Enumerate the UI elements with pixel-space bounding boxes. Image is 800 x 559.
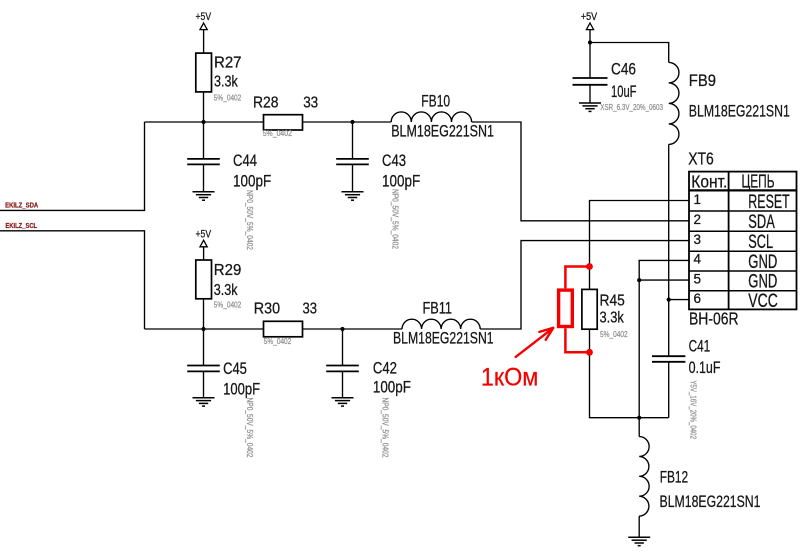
ferrite bead FB11	[393, 300, 494, 348]
svg-text:1: 1	[694, 192, 702, 207]
svg-text:0.1uF: 0.1uF	[689, 359, 721, 377]
svg-text:NP0_50V_5%_0402: NP0_50V_5%_0402	[245, 190, 254, 250]
wire bottom rail left	[145, 328, 264, 330]
ground (FB12)	[628, 537, 650, 545]
svg-text:XSR_6.3V_20%_0603: XSR_6.3V_20%_0603	[600, 103, 663, 112]
wire FB10 to SDA pin 2	[472, 122, 689, 221]
svg-text:100pF: 100pF	[223, 380, 260, 398]
label BH-06R	[689, 309, 739, 329]
svg-text:C46: C46	[611, 60, 636, 78]
node red bottom junction	[586, 349, 593, 356]
wire top rail left	[145, 121, 264, 123]
node GND rail junction	[637, 416, 641, 420]
ground (C42)	[332, 398, 354, 406]
ground (C44)	[193, 192, 215, 200]
svg-text:FB11: FB11	[423, 300, 453, 318]
svg-text:ЦЕПЬ: ЦЕПЬ	[742, 172, 775, 192]
ground (C45)	[193, 398, 215, 406]
pin 2 number	[694, 212, 702, 227]
power +5V (above R27)	[196, 11, 212, 53]
ground (C46)	[579, 103, 601, 111]
svg-text:Конт.: Конт.	[691, 172, 727, 192]
resistor R27	[196, 53, 242, 92]
svg-text:VCC: VCC	[748, 291, 778, 312]
resistor R28	[253, 94, 318, 130]
svg-text:5%_0402: 5%_0402	[600, 330, 628, 339]
svg-text:10uF: 10uF	[611, 83, 637, 101]
node pin5 GND junction	[637, 278, 641, 282]
svg-text:100pF: 100pF	[373, 379, 411, 397]
node +5V/C46/FB9 junction	[588, 40, 592, 44]
svg-text:C41: C41	[689, 338, 711, 356]
connector XT6 table	[689, 172, 797, 310]
value label R29 tolerance	[214, 301, 242, 310]
node red top junction	[586, 263, 593, 270]
resistor R29	[196, 260, 242, 299]
resistor R45	[582, 289, 625, 329]
red annotation text 1кОм	[481, 364, 539, 392]
node pin6 VCC junction	[667, 298, 671, 302]
value label C46 type	[600, 103, 663, 112]
pin 2 net name SDA	[748, 212, 775, 233]
svg-text:NP0_50V_5%_0402: NP0_50V_5%_0402	[245, 398, 254, 458]
svg-text:EKILZ_SCL: EKILZ_SCL	[5, 223, 37, 230]
wire +5V rail to FB9	[590, 43, 669, 63]
capacitor C44	[187, 122, 271, 192]
value label C44 type	[245, 190, 254, 250]
svg-text:5%_0402: 5%_0402	[214, 301, 242, 310]
wire R45 bottom to GND rail	[590, 329, 669, 418]
value label C42 type	[381, 398, 390, 458]
ferrite bead FB10	[391, 92, 494, 140]
wire EKILZ_SDA entry	[0, 122, 145, 210]
wire EKILZ_SCL entry	[0, 231, 145, 329]
node C43 junction	[350, 120, 354, 124]
svg-text:BH-06R: BH-06R	[689, 309, 739, 329]
svg-text:4: 4	[694, 252, 702, 267]
wire pin 6 VCC	[669, 299, 689, 301]
wire pin 1 RESET to R45	[590, 201, 690, 290]
pin 1 number	[694, 192, 702, 207]
svg-text:GND: GND	[748, 272, 777, 293]
value label R28 tolerance	[263, 129, 293, 138]
svg-text:R45: R45	[600, 293, 625, 310]
power +5V (above R29)	[196, 228, 212, 260]
svg-text:33: 33	[303, 301, 318, 318]
svg-text:3.3k: 3.3k	[214, 282, 238, 299]
svg-text:Y5V_16V_20%_0402: Y5V_16V_20%_0402	[689, 380, 698, 439]
svg-text:EKILZ_SDA: EKILZ_SDA	[5, 202, 38, 209]
svg-text:C42: C42	[373, 359, 397, 377]
pin 1 net name RESET	[748, 192, 790, 213]
svg-text:2: 2	[694, 212, 702, 227]
svg-text:5: 5	[694, 271, 702, 286]
svg-text:C43: C43	[382, 152, 406, 170]
value label C41 type	[689, 380, 698, 439]
value label C43 type	[391, 189, 400, 249]
svg-text:R30: R30	[254, 301, 281, 318]
svg-text:RESET: RESET	[748, 192, 790, 213]
net label EKILZ_SCL	[5, 223, 37, 230]
value label R45 tolerance	[600, 330, 628, 339]
pin 4 number	[694, 252, 702, 267]
svg-text:BLM18EG221SN1: BLM18EG221SN1	[393, 330, 494, 348]
svg-text:FB10: FB10	[421, 92, 450, 110]
svg-text:BLM18EG221SN1: BLM18EG221SN1	[660, 493, 761, 511]
pin 4 net name GND	[748, 252, 777, 273]
svg-text:100pF: 100pF	[233, 172, 271, 190]
svg-text:SDA: SDA	[748, 212, 775, 233]
svg-text:3.3k: 3.3k	[600, 310, 624, 327]
red highlighted resistor (1kOm replacement)	[559, 267, 590, 353]
table header Конт.	[691, 172, 727, 192]
capacitor C43	[336, 122, 420, 192]
svg-text:R27: R27	[214, 54, 242, 71]
resistor R30	[254, 301, 317, 337]
value label C45 type	[245, 398, 254, 458]
svg-text:C45: C45	[223, 360, 247, 378]
node C42 junction	[340, 327, 344, 331]
power +5V (above C46)	[581, 11, 598, 43]
wire FB11 to SCL pin 3	[480, 241, 689, 329]
svg-text:5%_0402: 5%_0402	[263, 129, 293, 138]
label XT6	[688, 149, 714, 169]
wire pin 5 GND	[639, 279, 689, 281]
svg-text:XT6: XT6	[688, 149, 714, 169]
svg-text:1кОм: 1кОм	[481, 364, 539, 392]
wire R29 bottom	[203, 299, 205, 329]
svg-text:FB12: FB12	[660, 469, 689, 487]
svg-text:+5V: +5V	[581, 11, 598, 23]
wire FB9 down to C41	[668, 144, 670, 356]
pin 5 net name GND	[748, 272, 777, 293]
svg-text:5%_0402: 5%_0402	[264, 337, 292, 346]
svg-text:BLM18EG221SN1: BLM18EG221SN1	[689, 103, 790, 121]
wire bottom rail middle	[303, 328, 403, 330]
svg-text:NP0_50V_5%_0402: NP0_50V_5%_0402	[381, 398, 390, 458]
svg-text:5%_0402: 5%_0402	[214, 94, 242, 103]
svg-text:100pF: 100pF	[382, 172, 420, 190]
svg-text:GND: GND	[748, 252, 777, 273]
capacitor C41	[652, 338, 721, 418]
pin 6 number	[694, 291, 702, 306]
pin 6 net name VCC	[748, 291, 778, 312]
capacitor C46	[573, 43, 637, 104]
ferrite bead FB9	[669, 62, 790, 144]
svg-text:3: 3	[694, 232, 702, 247]
svg-text:FB9: FB9	[689, 72, 716, 90]
red annotation arrow	[516, 328, 554, 357]
svg-text:R29: R29	[214, 262, 242, 279]
svg-text:R28: R28	[253, 94, 279, 111]
svg-text:33: 33	[303, 94, 318, 111]
table header ЦЕПЬ	[742, 172, 775, 192]
svg-text:+5V: +5V	[196, 11, 212, 23]
svg-text:SCL: SCL	[748, 232, 773, 253]
value label R27 tolerance	[214, 94, 242, 103]
ground (C43)	[342, 192, 364, 200]
svg-text:C44: C44	[233, 152, 257, 170]
pin 3 net name SCL	[748, 232, 773, 253]
pin 5 number	[694, 271, 702, 286]
pin 3 number	[694, 232, 702, 247]
wire pin 4 GND down	[639, 260, 689, 417]
svg-text:BLM18EG221SN1: BLM18EG221SN1	[391, 123, 494, 141]
value label R30 tolerance	[264, 337, 292, 346]
svg-text:+5V: +5V	[196, 228, 212, 240]
ferrite bead FB12	[639, 418, 760, 538]
node R29/C45 junction	[201, 327, 205, 331]
node R27/C44 junction	[201, 120, 205, 124]
svg-text:6: 6	[694, 291, 702, 306]
wire top rail middle	[303, 121, 392, 123]
net label EKILZ_SDA	[5, 202, 38, 209]
wire R27 bottom	[203, 92, 205, 122]
capacitor C42	[326, 329, 411, 398]
svg-text:NP0_50V_5%_0402: NP0_50V_5%_0402	[391, 189, 400, 249]
svg-text:3.3k: 3.3k	[214, 73, 238, 90]
capacitor C45	[187, 329, 260, 398]
